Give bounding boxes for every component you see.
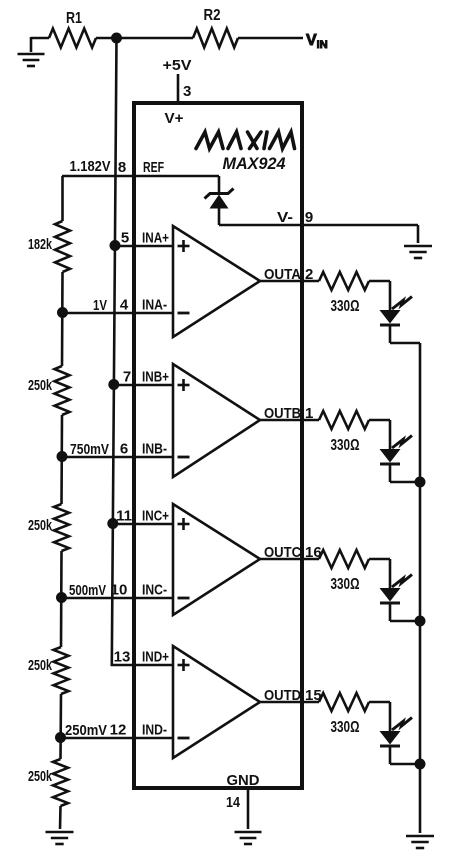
svg-text:1V: 1V [93,297,107,314]
svg-text:330Ω: 330Ω [331,298,360,315]
svg-text:MAX924: MAX924 [223,154,287,173]
svg-text:14: 14 [226,794,241,811]
svg-text:11: 11 [116,508,132,525]
svg-text:INB-: INB- [142,441,167,458]
svg-text:IND-: IND- [142,722,167,739]
svg-text:2: 2 [305,266,313,283]
svg-text:6: 6 [120,441,128,458]
svg-text:3: 3 [183,83,191,100]
svg-text:R2: R2 [204,7,221,24]
svg-text:REF: REF [143,159,164,176]
svg-text:5: 5 [121,230,129,247]
svg-text:7: 7 [123,369,131,386]
svg-text:330Ω: 330Ω [331,719,360,736]
svg-text:1.182V: 1.182V [70,158,111,175]
svg-text:15: 15 [305,687,322,704]
svg-text:IND+: IND+ [142,649,169,666]
svg-text:16: 16 [305,544,322,561]
svg-text:INC+: INC+ [142,508,169,525]
svg-text:OUTA: OUTA [264,266,301,283]
svg-text:VIN: VIN [306,32,328,51]
svg-text:250mV: 250mV [65,722,107,739]
svg-text:13: 13 [114,649,131,666]
svg-text:4: 4 [120,297,129,314]
svg-text:12: 12 [110,722,127,739]
svg-text:V+: V+ [165,110,184,127]
svg-text:9: 9 [305,209,313,226]
svg-text:OUTB: OUTB [264,405,301,422]
svg-text:250k: 250k [28,657,52,674]
svg-text:OUTD: OUTD [264,687,301,704]
svg-text:10: 10 [111,582,128,599]
svg-text:V-: V- [277,209,293,226]
svg-text:750mV: 750mV [70,441,109,458]
svg-text:250k: 250k [28,768,52,785]
svg-text:8: 8 [118,159,126,176]
svg-text:330Ω: 330Ω [331,437,360,454]
svg-text:OUTC: OUTC [264,544,301,561]
svg-text:R1: R1 [66,10,82,27]
svg-text:GND: GND [227,772,260,789]
svg-text:INB+: INB+ [142,369,169,386]
svg-text:250k: 250k [28,377,52,394]
svg-text:182k: 182k [28,236,52,253]
svg-text:1: 1 [305,405,313,422]
svg-text:250k: 250k [28,517,52,534]
svg-text:500mV: 500mV [69,582,106,599]
svg-text:330Ω: 330Ω [331,576,360,593]
svg-text:INA-: INA- [142,297,167,314]
svg-text:INA+: INA+ [142,230,169,247]
svg-text:INC-: INC- [142,582,167,599]
svg-text:+5V: +5V [163,57,192,74]
